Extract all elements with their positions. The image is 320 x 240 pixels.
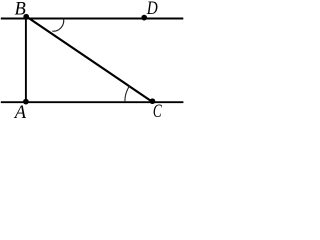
- svg-text:B: B: [15, 0, 26, 20]
- svg-text:D: D: [146, 0, 158, 19]
- svg-text:C: C: [153, 102, 162, 121]
- svg-text:A: A: [13, 103, 27, 121]
